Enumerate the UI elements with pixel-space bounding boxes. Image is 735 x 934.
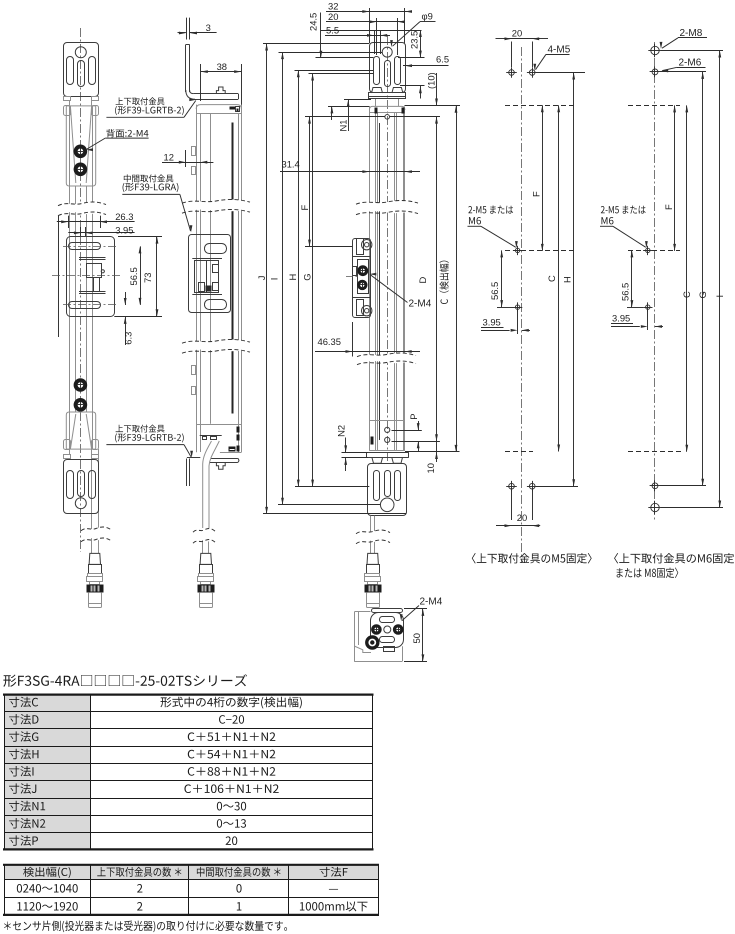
svg-text:10: 10 — [425, 463, 436, 473]
svg-text:F: F — [663, 204, 674, 210]
svg-text:3.95: 3.95 — [115, 224, 133, 235]
svg-text:24.5: 24.5 — [308, 13, 319, 31]
svg-text:20: 20 — [328, 11, 338, 22]
svg-text:20: 20 — [512, 28, 522, 39]
svg-text:H: H — [561, 276, 572, 283]
svg-text:C: C — [546, 275, 557, 282]
svg-text:C: C — [681, 291, 692, 298]
svg-text:12: 12 — [164, 151, 174, 162]
svg-text:3.95: 3.95 — [612, 313, 630, 324]
svg-text:N1: N1 — [338, 120, 349, 132]
svg-text:(10): (10) — [425, 72, 436, 89]
svg-text:50: 50 — [411, 633, 422, 643]
svg-text:P: P — [408, 414, 419, 420]
svg-text:H: H — [287, 274, 298, 281]
svg-text:3.95: 3.95 — [483, 316, 501, 327]
svg-text:6.3: 6.3 — [122, 332, 133, 345]
svg-text:32: 32 — [328, 0, 338, 11]
svg-text:26.3: 26.3 — [115, 211, 133, 222]
svg-text:4-M5: 4-M5 — [548, 45, 571, 56]
svg-text:N2: N2 — [335, 425, 346, 437]
svg-text:D: D — [417, 277, 428, 284]
svg-text:2-M4: 2-M4 — [409, 298, 432, 309]
svg-text:φ9: φ9 — [422, 11, 433, 22]
svg-text:46.35: 46.35 — [318, 336, 341, 347]
svg-text:20: 20 — [517, 512, 527, 523]
svg-text:5.5: 5.5 — [326, 24, 339, 35]
svg-text:56.5: 56.5 — [489, 282, 500, 300]
svg-text:J: J — [256, 276, 267, 281]
svg-text:3: 3 — [206, 22, 211, 33]
svg-text:31.4: 31.4 — [282, 159, 300, 170]
svg-text:F: F — [531, 191, 542, 197]
svg-text:56.5: 56.5 — [619, 283, 630, 301]
svg-text:56.5: 56.5 — [128, 267, 139, 285]
svg-text:38: 38 — [217, 61, 227, 72]
svg-text:2-M4: 2-M4 — [420, 597, 443, 608]
svg-text:I: I — [269, 278, 280, 281]
svg-text:73: 73 — [142, 273, 153, 283]
svg-text:G: G — [302, 273, 313, 280]
svg-text:23.5: 23.5 — [408, 31, 419, 49]
svg-text:6.5: 6.5 — [436, 53, 449, 64]
svg-text:I: I — [714, 295, 725, 298]
svg-text:G: G — [697, 291, 708, 298]
svg-text:F: F — [299, 205, 310, 211]
svg-text:2-M6: 2-M6 — [679, 58, 702, 69]
